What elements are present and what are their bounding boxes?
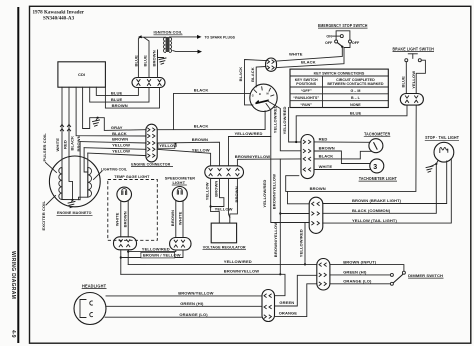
- wire BLUE (brake switch to brake connector): [405, 62, 407, 94]
- svg-text:ORANGE (LO): ORANGE (LO): [343, 278, 372, 283]
- accessory connector (4-pin oval): [205, 166, 244, 179]
- wire BROWN INPUT (dimmer connector to dimmer switch): [330, 265, 404, 272]
- svg-text:CDI: CDI: [78, 72, 85, 77]
- wire BROWN (brake node down to stop lamp connector pin1): [288, 191, 310, 203]
- svg-text:BLUE: BLUE: [111, 97, 123, 102]
- wire BLACK (engine connector pin1 right, up to key switch area): [157, 111, 265, 130]
- svg-text:BROWN: BROWN: [213, 181, 218, 197]
- svg-text:BLACK (COMMON): BLACK (COMMON): [352, 208, 391, 213]
- svg-text:BROWN: BROWN: [234, 186, 239, 202]
- svg-text:TACHOMETER LIGHT: TACHOMETER LIGHT: [359, 176, 397, 181]
- wire BLUE (connector to ignition coil top rail): [144, 38, 149, 78]
- wire RED (CDI into magneto to ground junction): [69, 87, 73, 200]
- svg-text:G: G: [252, 93, 254, 97]
- svg-text:SN340/440-A3: SN340/440-A3: [43, 15, 75, 21]
- ignition coil ground: [158, 50, 164, 58]
- wire BROWN/YELLOW (accessory bus horizontal to gauge connector pin3): [237, 159, 301, 166]
- svg-text:BLUE: BLUE: [133, 55, 138, 67]
- page sidebar rule: [17, 7, 19, 343]
- svg-text:GREEN (HI): GREEN (HI): [180, 301, 204, 306]
- wire ORANGE (headlight connector to dimmer connector): [275, 284, 317, 317]
- svg-text:BLUE: BLUE: [143, 55, 148, 67]
- svg-text:B: B: [259, 92, 261, 96]
- wire YELLOW/RED (key switch horizontal to accessory connector): [229, 136, 271, 138]
- wire BLACK (stop switch connector to key switch top): [256, 67, 265, 87]
- wire WHITE (CDI to magneto pulser coil): [61, 87, 63, 167]
- brake connector (2-pin oval): [400, 94, 423, 106]
- wire BROWN (temp bulb lead): [127, 201, 129, 237]
- key switch connections table: [290, 69, 388, 107]
- svg-text:4-9: 4-9: [10, 330, 16, 338]
- wire GREEN HI (dimmer connector to switch contact): [330, 274, 390, 276]
- wire BLACK (stop switch connector drop to key switch): [245, 60, 266, 105]
- svg-text:BROWN/YELLOW: BROWN/YELLOW: [272, 174, 277, 209]
- wire BLUE (brake connector to gauge connector pin1): [296, 105, 407, 142]
- svg-text:YELLOW: YELLOW: [215, 207, 233, 212]
- svg-text:GREEN (HI): GREEN (HI): [343, 269, 367, 274]
- wire BROWN (accessory connector pin4 to voltage regulator): [230, 178, 238, 223]
- svg-text:BROWN / YELLOW: BROWN / YELLOW: [143, 253, 181, 258]
- ground (stop tail light): [435, 163, 437, 165]
- svg-text:GREEN: GREEN: [279, 300, 294, 305]
- svg-text:WHITE: WHITE: [178, 211, 183, 225]
- svg-text:HEADLIGHT: HEADLIGHT: [82, 284, 106, 289]
- wire WHITE (stop switch to connector): [277, 47, 342, 61]
- svg-text:GRAY: GRAY: [111, 125, 123, 130]
- wire YELLOW (accessory connector pin1 to voltage regulator): [211, 178, 220, 223]
- wire BLUE (connector to ignition coil top rail): [138, 37, 139, 77]
- svg-text:BROWN: BROWN: [112, 137, 128, 142]
- svg-text:BLACK: BLACK: [301, 60, 316, 65]
- svg-text:ON: ON: [326, 34, 332, 38]
- tachometer light: [370, 159, 384, 173]
- svg-text:YELLOW/RED: YELLOW/RED: [224, 259, 252, 264]
- svg-text:IGNITION COIL: IGNITION COIL: [154, 30, 183, 35]
- svg-text:BROWN/YELLOW: BROWN/YELLOW: [235, 154, 270, 159]
- svg-text:TEMP GAGE LIGHT: TEMP GAGE LIGHT: [114, 174, 150, 179]
- svg-text:EMERGENCY STOP SWITCH: EMERGENCY STOP SWITCH: [318, 23, 368, 28]
- wire YELLOW (engine connector pin5 to lighting coil): [87, 153, 89, 167]
- wire BLUE 2 (CDI to ignition connector): [90, 87, 149, 102]
- wire (accessory connector pin3 stub): [229, 178, 230, 217]
- svg-text:BLACK: BLACK: [194, 88, 209, 93]
- svg-text:WHITE: WHITE: [115, 212, 120, 226]
- wire GREEN HI (headlight to connector): [106, 305, 262, 307]
- stop switch connector (2-pin oval): [266, 58, 277, 71]
- temp gage light bulb: [117, 187, 132, 202]
- wire YELLOW (engine connector to accessory connector): [157, 149, 210, 166]
- svg-text:YELLOW: YELLOW: [192, 148, 210, 153]
- temp light connector (2-pin oval): [114, 237, 137, 250]
- wire YELLOW (brake connector down, left as brake feed): [286, 105, 417, 191]
- svg-text:G – M: G – M: [350, 89, 360, 93]
- wire BROWN (CDI to ignition connector): [105, 87, 159, 108]
- wire BLACK (gauge connector to tachometer): [314, 151, 371, 159]
- wire YELLOW (brake switch to brake connector): [416, 60, 425, 93]
- svg-text:BLUE: BLUE: [401, 76, 406, 88]
- dimmer connector (3-pin oval): [317, 259, 330, 291]
- svg-text:YELLOW: YELLOW: [411, 71, 416, 89]
- svg-text:RED: RED: [319, 137, 328, 142]
- svg-text:“RUN/LIGHTS”: “RUN/LIGHTS”: [293, 96, 319, 100]
- svg-text:ORANGE: ORANGE: [279, 310, 298, 315]
- svg-text:YELLOW/RED: YELLOW/RED: [235, 131, 263, 136]
- wire BROWN (engine connector pin3 down into magneto): [79, 142, 81, 200]
- svg-text:POSITIONS: POSITIONS: [296, 82, 316, 86]
- svg-text:M: M: [267, 92, 269, 96]
- wire YELLOW TAIL LIGHT (stop tail light to connector): [323, 159, 452, 223]
- svg-text:WHITE: WHITE: [319, 164, 333, 169]
- svg-text:“OFF”: “OFF”: [301, 89, 312, 93]
- wire WHITE (temp bulb lead): [120, 201, 122, 237]
- wire BROWN (engine connector to accessory connector): [157, 142, 219, 166]
- svg-text:BROWN/YELLOW: BROWN/YELLOW: [273, 222, 278, 257]
- gauge connector (4-pin oval): [301, 135, 314, 179]
- svg-text:BLACK: BLACK: [238, 67, 243, 82]
- svg-text:YELLOW: YELLOW: [112, 143, 130, 148]
- wire BLACK (stop switch to connector): [277, 43, 350, 68]
- ground (magneto): [71, 199, 73, 201]
- wire BLUE 1 (CDI to ignition connector): [96, 87, 138, 95]
- svg-text:BETWEEN CONTACTS MARKED: BETWEEN CONTACTS MARKED: [327, 82, 384, 86]
- speedometer light bulb: [172, 187, 187, 202]
- svg-text:BROWN: BROWN: [151, 50, 156, 66]
- svg-text:BLACK: BLACK: [69, 136, 74, 151]
- svg-text:TACHOMETER: TACHOMETER: [364, 132, 390, 137]
- svg-text:“RUN”: “RUN”: [300, 103, 312, 107]
- wire ORANGE LO (dimmer connector to switch contact): [330, 283, 390, 285]
- svg-text:NONE: NONE: [350, 103, 361, 107]
- dimmer switch S4: [390, 273, 393, 276]
- svg-text:STOP · TAIL LIGHT: STOP · TAIL LIGHT: [425, 135, 459, 140]
- voltage regulator VR1: [211, 223, 236, 243]
- svg-text:3: 3: [373, 164, 377, 171]
- svg-text:BROWN: BROWN: [319, 146, 335, 151]
- svg-text:YELLOW: YELLOW: [112, 149, 130, 154]
- svg-text:EXCITER COIL: EXCITER COIL: [41, 201, 46, 231]
- headlight connector (3-pin oval): [262, 290, 275, 322]
- svg-text:YELLOW: YELLOW: [204, 182, 209, 200]
- ground (CDI brown tap): [96, 118, 98, 121]
- svg-text:BROWN (INPUT): BROWN (INPUT): [343, 259, 377, 264]
- pulser coil (left winding): [61, 168, 63, 200]
- temp gage light dashed box: [108, 180, 158, 241]
- wire BROWN/YELLOW (vertical drop to headlight circuit): [279, 159, 281, 274]
- svg-text:BROWN/YELLOW: BROWN/YELLOW: [178, 291, 213, 296]
- wire YELLOW/RED (tap down to dimmer feed): [304, 223, 306, 265]
- svg-text:YELLOW/RED: YELLOW/RED: [282, 106, 287, 134]
- svg-text:OFF: OFF: [325, 41, 333, 45]
- wire ignition coil HT output to spark plugs (bottom): [173, 51, 198, 52]
- svg-text:BLUE: BLUE: [111, 90, 123, 95]
- wire WHITE (gauge connector to tachometer light): [314, 169, 370, 171]
- wire GREEN (headlight connector to dimmer connector): [275, 275, 317, 306]
- svg-text:BLACK: BLACK: [319, 154, 334, 159]
- wire YELLOW/RED (temp connector to speedo connector): [127, 250, 129, 265]
- magneto internal ground bus: [62, 199, 80, 201]
- wire YELLOW/RED (key switch T2 down to gauge connector pin2): [269, 102, 302, 151]
- wire ORANGE LO (headlight to connector): [105, 316, 262, 318]
- wire BROWN/YELLOW (temp connector to speedo connector): [120, 250, 122, 274]
- wire YELLOW/RED (rail to dimmer connector): [128, 263, 317, 265]
- wire BROWN (accessory connector pin2 to regulator node): [211, 178, 224, 206]
- junction dot ground tap: [97, 117, 99, 119]
- svg-text:RED: RED: [62, 140, 67, 149]
- svg-text:WHITE: WHITE: [289, 51, 303, 56]
- svg-text:YELLOW (TAIL LIGHT): YELLOW (TAIL LIGHT): [352, 218, 397, 223]
- wire RED (gauge connector to tachometer): [314, 141, 370, 143]
- svg-text:BRAKE LIGHT SWITCH: BRAKE LIGHT SWITCH: [393, 46, 435, 51]
- svg-text:OFF: OFF: [352, 41, 360, 45]
- svg-text:VOLTAGE REGULATOR: VOLTAGE REGULATOR: [203, 245, 246, 250]
- svg-text:B – L: B – L: [351, 96, 361, 100]
- svg-text:KEY SWITCH CONNECTIONS: KEY SWITCH CONNECTIONS: [314, 71, 365, 75]
- svg-text:BROWN: BROWN: [192, 137, 208, 142]
- svg-text:WIRING DIAGRAM: WIRING DIAGRAM: [10, 251, 16, 299]
- svg-text:WHITE: WHITE: [55, 138, 60, 152]
- wire YELLOW (engine connector pin4 to lighting coil): [84, 148, 88, 172]
- svg-text:YELLOW/RED: YELLOW/RED: [272, 105, 277, 133]
- svg-text:ENGINE MAGNETO: ENGINE MAGNETO: [57, 210, 92, 215]
- wire YELLOW/RED (key switch T1 down to tail connector): [266, 104, 309, 223]
- svg-text:BROWN/YELLOW: BROWN/YELLOW: [224, 268, 259, 273]
- svg-text:ENGINE CONNECTOR: ENGINE CONNECTOR: [131, 162, 170, 167]
- svg-text:BLACK: BLACK: [194, 124, 209, 129]
- svg-text:BROWN: BROWN: [310, 186, 326, 191]
- lighting coil (right winding): [87, 167, 89, 197]
- svg-text:BROWN: BROWN: [112, 103, 128, 108]
- key switch S2: [250, 84, 277, 111]
- engine magneto M1: [49, 156, 100, 207]
- CDI box: [58, 62, 106, 87]
- wire ignition coil HT output to spark plugs (top): [140, 36, 166, 38]
- svg-text:BROWN: BROWN: [170, 210, 175, 226]
- wire BROWN/YELLOW (headlight to connector): [106, 295, 262, 297]
- wire BLACK (CDI to engine connector pin2): [76, 87, 146, 136]
- ignition coil connector (3-pin oval): [132, 78, 165, 88]
- wire BLACK COMMON (stop tail light ground to connector): [323, 164, 437, 213]
- svg-text:ORANGE (LO): ORANGE (LO): [179, 312, 208, 317]
- boxed YELLOW splice label: [158, 143, 175, 148]
- svg-text:DIMMER SWITCH: DIMMER SWITCH: [408, 273, 443, 278]
- engine connector (5-pin oval): [146, 124, 157, 162]
- svg-text:BLACK: BLACK: [112, 131, 127, 136]
- svg-text:YELLOW/RED: YELLOW/RED: [262, 180, 267, 208]
- svg-text:TO SPARK PLUGS: TO SPARK PLUGS: [205, 35, 236, 39]
- wire BROWN BRAKE LIGHT (stop lamp connector to stop tail light): [323, 161, 447, 204]
- wire BROWN/YELLOW (rail to headlight connector riser): [121, 274, 285, 295]
- svg-text:LIGHTING COIL: LIGHTING COIL: [101, 166, 127, 171]
- speedo light connector (2-pin oval): [170, 238, 191, 251]
- svg-text:PULSER COIL: PULSER COIL: [42, 133, 47, 162]
- svg-text:YELLOW/RED: YELLOW/RED: [299, 229, 304, 257]
- svg-text:BROWN: BROWN: [122, 211, 127, 227]
- svg-text:BLACK: BLACK: [250, 67, 255, 82]
- stop lamp connector (3-pin oval): [309, 197, 323, 233]
- wire WHITE (speedo bulb lead): [182, 201, 184, 238]
- wire BROWN (CDI jog with ground tap, becomes GRAY to engine connector pin1): [83, 87, 146, 130]
- svg-text:LIGHT: LIGHT: [173, 180, 186, 185]
- wire BROWN (connector to ignition coil primary/ground): [157, 50, 159, 78]
- svg-text:YELLOW/RED: YELLOW/RED: [142, 246, 170, 251]
- wire BROWN (speedo bulb lead): [175, 201, 177, 238]
- wire BROWN (gauge connector to tachometer light): [314, 151, 370, 164]
- svg-text:BLUE: BLUE: [350, 110, 362, 115]
- wire (table edge drop to gauge connector pin1): [289, 108, 301, 143]
- svg-text:BROWN (BRAKE LIGHT): BROWN (BRAKE LIGHT): [352, 198, 402, 203]
